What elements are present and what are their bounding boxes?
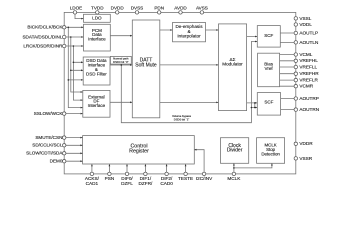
svg-text:Interpolator: Interpolator (177, 34, 201, 39)
svg-text:Vref: Vref (265, 66, 274, 71)
svg-text:TESTE: TESTE (178, 176, 193, 181)
svg-text:PDN: PDN (154, 5, 164, 10)
svg-text:VSSL: VSSL (299, 16, 311, 21)
svg-text:Divider: Divider (227, 148, 243, 154)
svg-text:LDOE: LDOE (70, 5, 83, 10)
svg-text:DSD Filter: DSD Filter (86, 71, 107, 76)
svg-text:Modulator: Modulator (222, 61, 243, 66)
svg-text:SCF: SCF (264, 33, 273, 38)
svg-text:DZFR/: DZFR/ (138, 181, 152, 186)
svg-text:Detection: Detection (261, 151, 280, 156)
svg-text:DZFL: DZFL (121, 181, 133, 186)
svg-text:I2C/INV: I2C/INV (196, 176, 213, 181)
svg-text:VREFLL: VREFLL (299, 64, 317, 69)
svg-text:DVDD: DVDD (111, 5, 125, 10)
svg-text:MCLK: MCLK (227, 176, 241, 181)
svg-text:SMUTE/CSN: SMUTE/CSN (35, 135, 62, 140)
svg-text:CAD0: CAD0 (160, 181, 173, 186)
svg-text:SSLOW/WCK: SSLOW/WCK (34, 111, 64, 116)
svg-text:DVSS: DVSS (131, 5, 144, 10)
svg-text:BICK/DCLK/BCK: BICK/DCLK/BCK (27, 25, 63, 30)
svg-text:SDATA/DSDL/DINL: SDATA/DSDL/DINL (22, 34, 62, 39)
svg-text:VCML: VCML (299, 52, 312, 57)
svg-text:Register: Register (129, 149, 149, 155)
svg-text:Interface: Interface (88, 103, 106, 108)
svg-text:Interface: Interface (88, 36, 106, 41)
svg-text:LRCK/DSDR/DINR: LRCK/DSDR/DINR (23, 43, 63, 48)
svg-text:SLOW/CDTI/SDA: SLOW/CDTI/SDA (26, 151, 63, 156)
svg-text:AOUTLP: AOUTLP (299, 30, 318, 35)
svg-text:VCMR: VCMR (299, 84, 313, 89)
svg-text:SD/CCLK/SCL: SD/CCLK/SCL (32, 143, 63, 148)
svg-text:DSD0 bit “0”: DSD0 bit “0” (113, 60, 128, 64)
svg-text:AVSS: AVSS (196, 5, 208, 10)
svg-text:VDDL: VDDL (299, 22, 312, 27)
svg-text:DSD0 bit “1”: DSD0 bit “1” (174, 117, 189, 121)
svg-text:VREFHL: VREFHL (299, 58, 318, 63)
svg-text:VDDR: VDDR (299, 141, 313, 146)
svg-text:SCF: SCF (264, 99, 273, 104)
svg-text:Soft Mute: Soft Mute (135, 63, 157, 69)
svg-text:LDO: LDO (92, 16, 102, 21)
svg-text:CAD1: CAD1 (86, 181, 99, 186)
svg-text:PSN: PSN (105, 176, 115, 181)
svg-text:AVDD: AVDD (174, 5, 187, 10)
svg-text:VREFHR: VREFHR (299, 71, 319, 76)
svg-text:VSSR: VSSR (299, 156, 312, 161)
svg-text:AOUTRN: AOUTRN (299, 107, 319, 112)
svg-text:VREFLR: VREFLR (299, 78, 318, 83)
svg-text:AOUTLN: AOUTLN (299, 40, 318, 45)
svg-text:AOUTRP: AOUTRP (299, 96, 319, 101)
svg-text:TVDD: TVDD (91, 5, 104, 10)
svg-text:DEM0: DEM0 (50, 159, 63, 164)
